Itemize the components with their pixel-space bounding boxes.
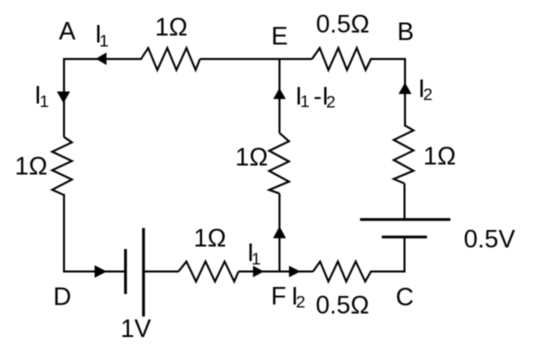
svg-text:2: 2 [296, 293, 305, 312]
wire top rail A to R1 [64, 58, 141, 60]
battery B1 1V long plate [142, 228, 145, 317]
wire left rail to D and bottom to battery [64, 195, 125, 272]
resistor R 1ohm top [141, 48, 200, 70]
svg-text:1Ω: 1Ω [194, 225, 227, 253]
svg-text:A: A [59, 17, 76, 45]
svg-text:D: D [53, 283, 71, 311]
svg-text:1: 1 [251, 250, 260, 269]
arrow I1-I2 middle upper pointing up [273, 88, 286, 99]
svg-text:0.5Ω: 0.5Ω [316, 10, 369, 38]
wire middle rail E down [279, 58, 281, 133]
svg-text:1: 1 [40, 92, 49, 111]
svg-text:1: 1 [99, 31, 108, 50]
svg-text:0.5V: 0.5V [464, 226, 516, 254]
svg-text:F: F [271, 283, 286, 311]
svg-text:1Ω: 1Ω [15, 152, 48, 180]
battery B2 0.5V long plate [360, 218, 450, 221]
resistor R 0.5ohm bottom [313, 262, 371, 282]
svg-text:1Ω: 1Ω [423, 143, 456, 171]
wire top rail R1 to R2 through node E [200, 58, 312, 60]
svg-text:1: 1 [300, 92, 309, 111]
svg-text:B: B [397, 18, 414, 46]
svg-text:2: 2 [423, 85, 432, 104]
arrow bottom near D pointing right [95, 265, 107, 277]
arrow middle lower pointing up [273, 226, 286, 238]
svg-text:2: 2 [326, 92, 335, 111]
svg-text:1V: 1V [121, 315, 152, 343]
wire bottom R5 to F to R6 [239, 271, 314, 273]
resistor R 1ohm middle [269, 133, 289, 194]
resistor R 1ohm left [52, 137, 72, 195]
svg-text:1Ω: 1Ω [155, 13, 188, 41]
arrow I1 bottom before F pointing right [253, 266, 264, 278]
resistor R 1ohm right [394, 126, 414, 184]
battery B1 1V short plate [124, 249, 127, 294]
wire middle rail to F [279, 194, 281, 272]
resistor R 0.5ohm top [312, 48, 371, 70]
arrow I1 left rail pointing down [57, 92, 70, 104]
wire bottom battery to R5 [144, 271, 179, 273]
battery B2 0.5V short plate [382, 236, 427, 239]
arrow I2 right rail pointing up [399, 83, 412, 95]
svg-text:1Ω: 1Ω [235, 143, 268, 171]
wire bottom R6 to C corner up to battery2 [371, 237, 405, 272]
arrow I2 bottom after F pointing right [289, 266, 301, 278]
svg-text:E: E [271, 23, 288, 51]
svg-text:C: C [396, 284, 414, 312]
wire top rail R2 to B [371, 59, 405, 126]
arrow I1 top pointing left [96, 53, 107, 66]
wire battery2 to R7 [404, 184, 406, 220]
svg-text:0.5Ω: 0.5Ω [316, 291, 369, 319]
resistor R 1ohm bottom [179, 262, 239, 282]
wire left rail A down [63, 58, 65, 137]
